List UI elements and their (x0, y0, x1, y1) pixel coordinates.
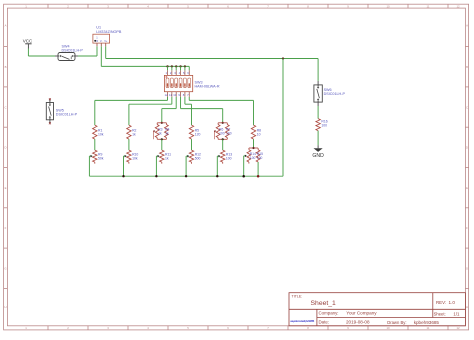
wire R16 to GND (317, 131, 319, 146)
node pair top col3 (161, 122, 163, 124)
svg-text:REV:: REV: (436, 300, 446, 305)
svg-text:DSIC01LH-P: DSIC01LH-P (56, 112, 78, 116)
potentiometer R11 (156, 150, 171, 176)
svg-text:DSIC01LH-P: DSIC01LH-P (62, 49, 84, 53)
svg-text:F: F (466, 226, 468, 230)
svg-text:C: C (4, 105, 6, 109)
wire pair to R11 (161, 139, 163, 150)
node pair bottom col5 (222, 138, 224, 140)
node pair bottom col3 (161, 138, 163, 140)
node pair top col6 (252, 147, 254, 149)
svg-text:2019-08-08: 2019-08-08 (346, 320, 370, 325)
wire R8 to pair (253, 139, 255, 148)
wire DIP pin6 to column 6 (188, 97, 190, 101)
svg-text:H: H (4, 305, 6, 309)
svg-text:E: E (466, 186, 468, 190)
wire SW6 to R16 (317, 106, 319, 119)
potentiometer R3 value 1k (153, 125, 162, 140)
svg-text:10: 10 (386, 326, 390, 330)
resistor R1 (93, 125, 104, 139)
resistor R16 (316, 119, 328, 131)
wire DIP pin5 to column 4 (184, 97, 186, 104)
wire R1 to R9 (94, 139, 96, 150)
resistor R7 value 100 (225, 125, 231, 140)
svg-text:G: G (4, 267, 6, 271)
svg-text:D: D (4, 146, 6, 150)
potentiometer R10 (124, 150, 139, 176)
svg-text:10: 10 (173, 93, 176, 97)
svg-text:B: B (466, 65, 468, 69)
svg-text:D: D (466, 146, 468, 150)
svg-text:kpbeh93685: kpbeh93685 (414, 320, 440, 325)
potentiometer R13 (217, 150, 232, 176)
svg-text:10: 10 (386, 4, 390, 8)
node bus dot col6 wiper (242, 175, 245, 178)
DIP switch SW3 HAM-06LWA-R (164, 70, 219, 97)
node bus dot col3 (155, 175, 157, 177)
potentiometer R14 value 100 (244, 150, 256, 177)
wire DIP pin2 to column 2 (171, 97, 173, 104)
svg-text:1k: 1k (165, 156, 169, 160)
svg-text:F: F (5, 226, 7, 230)
svg-text:100: 100 (250, 156, 256, 160)
potentiometer R6 value 100 (214, 125, 224, 140)
wire DIP pin4 to column 5 (180, 97, 182, 109)
wire DIP pin3 to column 3 (175, 97, 177, 109)
ground (312, 145, 324, 159)
svg-text:12: 12 (456, 326, 460, 330)
wire VCC to SW4 (27, 49, 29, 57)
switch SW5 DSIC01LH-P (46, 98, 77, 124)
potentiometer R12 (186, 150, 201, 176)
switch SW4 DSIC01LH-P (55, 45, 83, 61)
svg-text:12: 12 (165, 93, 168, 97)
resistor R5 (189, 125, 200, 139)
svg-text:Drawn By:: Drawn By: (387, 320, 406, 325)
wire R2 to R10 (128, 139, 130, 150)
wire parallel join bottom at R6/R7 (218, 138, 227, 140)
svg-text:1.0: 1.0 (449, 300, 456, 305)
svg-text:E: E (5, 186, 7, 190)
svg-text:Sheet_1: Sheet_1 (311, 300, 337, 307)
svg-text:H: H (466, 305, 468, 309)
svg-text:100: 100 (226, 156, 232, 160)
wire parallel join top at R14/R15 (249, 148, 258, 150)
svg-text:Date:: Date: (319, 320, 330, 325)
svg-text:1k: 1k (165, 131, 169, 135)
svg-text:A: A (5, 24, 7, 28)
svg-text:12: 12 (456, 4, 460, 8)
bottom bus wire (89, 175, 283, 177)
svg-text:R: R (96, 39, 98, 43)
svg-text:120: 120 (195, 132, 201, 136)
svg-text:Your Company: Your Company (346, 311, 377, 316)
svg-text:Company:: Company: (319, 311, 339, 316)
svg-text:V-: V- (100, 39, 103, 43)
svg-text:11: 11 (427, 4, 430, 8)
switch SW6 DSIC01LH-P (314, 81, 346, 106)
title block (289, 293, 465, 326)
svg-text:A: A (466, 24, 468, 28)
resistor R15 value 100 (256, 150, 263, 177)
node bus dot col6 R15 (257, 175, 260, 178)
VCC net flag (23, 38, 33, 48)
node bus dot col5 (216, 175, 218, 177)
wire vertical to bottom bus (282, 59, 284, 177)
resistor R4 value 1k (165, 125, 170, 140)
svg-text:50k: 50k (98, 156, 104, 160)
svg-text:C: C (466, 105, 468, 109)
svg-text:V+: V+ (104, 39, 108, 43)
wire parallel join top at R6/R7 (218, 123, 227, 125)
svg-text:U1: U1 (96, 25, 101, 29)
DIP bus junction dots (166, 65, 168, 67)
op IC U1 LM334Z/NOPB (93, 25, 122, 46)
node junction wireB to bottom bus (282, 57, 284, 59)
svg-text:100: 100 (219, 131, 225, 135)
wire parallel join bottom at R3/R4 (157, 138, 166, 140)
wire U1 pin2 to DIP bus (100, 46, 102, 66)
svg-text:LM334Z/NOPB: LM334Z/NOPB (96, 30, 122, 34)
svg-text:11: 11 (427, 326, 430, 330)
svg-text:G: G (466, 267, 468, 271)
svg-text:1k: 1k (132, 132, 136, 136)
DIP top pin wires (167, 66, 169, 70)
svg-text:10k: 10k (98, 132, 104, 136)
svg-text:VCC: VCC (23, 38, 33, 43)
wire SW4 to U1 pin1 (78, 55, 97, 57)
svg-text:easyeda.com/user/kpbeh93685: easyeda.com/user/kpbeh93685 (290, 319, 315, 323)
node bus dot col2 (122, 175, 124, 177)
svg-text:TITLE:: TITLE: (292, 295, 303, 299)
node bus dot col4 (185, 175, 187, 177)
svg-text:1k: 1k (158, 131, 162, 135)
svg-text:Sheet:: Sheet: (434, 312, 446, 317)
svg-text:100: 100 (257, 156, 263, 160)
resistor R2 (127, 125, 137, 139)
potentiometer R9 (89, 150, 103, 176)
svg-text:100: 100 (321, 124, 327, 128)
wire R5 to R12 (191, 139, 193, 150)
svg-text:GND: GND (312, 153, 324, 159)
wire U1 pin3 to right column (105, 46, 107, 58)
svg-text:500: 500 (195, 156, 201, 160)
resistor R8 (251, 125, 261, 139)
wire DIP pin1 to column 1 (167, 97, 169, 101)
svg-text:100: 100 (226, 131, 232, 135)
svg-text:11: 11 (169, 93, 172, 97)
svg-text:B: B (5, 65, 7, 69)
svg-text:1/1: 1/1 (453, 312, 460, 317)
node pair top col5 (222, 122, 224, 124)
svg-text:DSIC01LH-P: DSIC01LH-P (324, 92, 346, 96)
wire pair to R13 (222, 139, 224, 150)
svg-text:HAM-06LWA-R: HAM-06LWA-R (195, 85, 220, 89)
wire parallel join top at R3/R4 (157, 123, 166, 125)
svg-text:10: 10 (257, 132, 261, 136)
svg-text:10k: 10k (132, 156, 138, 160)
